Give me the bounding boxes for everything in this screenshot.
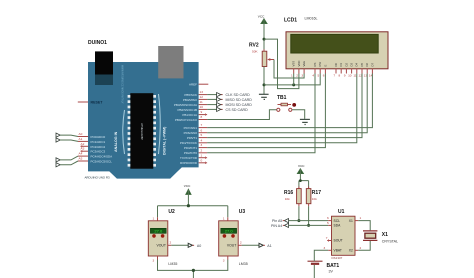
svg-text:U2: U2	[168, 209, 175, 215]
wire R16 to SCL line	[298, 206, 300, 220]
Arduino DUINO1	[85, 40, 199, 180]
ground (RV2)	[259, 94, 269, 99]
pin 1 nc	[199, 157, 208, 159]
terminal MISO SD CARD	[217, 97, 221, 101]
terminal A5 (left)	[56, 161, 78, 167]
svg-text:X2: X2	[349, 249, 353, 253]
wire right terminal to ground	[292, 110, 305, 119]
svg-text:TX: TX	[180, 156, 184, 160]
wire pin3 to E	[207, 74, 325, 148]
Arduino pin stubs right	[78, 84, 209, 164]
svg-text:PD4/T0/XCK: PD4/T0/XCK	[180, 141, 197, 145]
svg-text:11: 11	[200, 100, 203, 104]
pin 7 SOUT nc	[327, 240, 331, 242]
svg-text:7: 7	[333, 73, 335, 77]
lcd pin stubs and numbers	[291, 69, 373, 78]
svg-text:RESET: RESET	[91, 101, 104, 105]
svg-text:9: 9	[201, 110, 203, 114]
svg-text:BAT1: BAT1	[327, 263, 340, 269]
wire VBAT to battery	[314, 250, 328, 261]
svg-text:PD2/INT0: PD2/INT0	[184, 151, 198, 155]
wire VCC split to R16 R17	[299, 174, 309, 189]
wire	[60, 156, 78, 160]
svg-text:MISO SD CARD: MISO SD CARD	[226, 98, 253, 102]
wire pin13	[207, 94, 217, 96]
svg-text:1: 1	[291, 73, 293, 77]
svg-text:3: 3	[324, 246, 326, 250]
svg-text:DUINO1: DUINO1	[88, 40, 107, 46]
wire pin2 to RS	[207, 74, 315, 153]
svg-text:10: 10	[200, 105, 204, 109]
pin 3	[157, 256, 159, 260]
svg-text:RV2: RV2	[249, 43, 259, 49]
svg-text:D4: D4	[355, 62, 359, 66]
pin 6	[199, 132, 208, 134]
svg-text:PIN A4: PIN A4	[271, 224, 282, 228]
svg-text:SOUT: SOUT	[334, 239, 343, 243]
svg-text:Pin A5: Pin A5	[272, 219, 282, 223]
svg-text:PC2/ADC2: PC2/ADC2	[91, 145, 106, 149]
svg-text:3: 3	[301, 73, 303, 77]
battery BAT1	[308, 261, 340, 273]
svg-text:10: 10	[348, 73, 352, 77]
svg-text:U1: U1	[338, 209, 345, 215]
Arduino pin stubs left	[78, 132, 88, 161]
svg-text:DIGITAL (~PWM): DIGITAL (~PWM)	[163, 126, 167, 155]
pin 2	[238, 244, 242, 246]
bar	[278, 104, 292, 106]
svg-text:6: 6	[327, 216, 329, 220]
svg-text:TB1: TB1	[277, 95, 287, 101]
svg-text:PD0/RXD: PD0/RXD	[184, 161, 198, 165]
pin A3 nc	[81, 150, 89, 152]
pin 2	[168, 244, 172, 246]
lcd body	[286, 32, 388, 69]
power jack	[95, 51, 113, 74]
wire U2 out	[171, 244, 188, 246]
pin 3 VBAT	[328, 249, 331, 251]
pin 2	[199, 152, 208, 154]
pins D0-D3 nc	[336, 69, 352, 74]
svg-text:VBAT: VBAT	[334, 249, 342, 253]
pin 9 nc	[199, 114, 208, 116]
pin RESET nc	[78, 101, 88, 103]
usb connector	[158, 46, 183, 78]
wire pin11	[207, 104, 217, 106]
svg-text:3: 3	[223, 259, 225, 263]
svg-text:DS1307: DS1307	[332, 256, 343, 260]
svg-text:D1: D1	[339, 62, 343, 66]
svg-text:A0: A0	[79, 132, 83, 136]
svg-text:VOUT: VOUT	[157, 244, 166, 248]
terminal A1 (U3 out)	[259, 243, 272, 248]
svg-text:VDD: VDD	[297, 61, 301, 67]
potentiometer RV2	[249, 43, 274, 69]
svg-text:X1: X1	[382, 232, 388, 238]
svg-text:3V: 3V	[329, 270, 334, 274]
svg-text:ATMEGA328P: ATMEGA328P	[140, 123, 144, 140]
pin 1 X1	[355, 220, 358, 222]
svg-text:CRYSTAL: CRYSTAL	[382, 239, 398, 243]
wire	[60, 135, 78, 136]
svg-text:SDA: SDA	[334, 224, 342, 228]
svg-text:D2: D2	[344, 62, 348, 66]
svg-text:2: 2	[170, 241, 172, 245]
wire U1 X1 pin to crystal	[358, 221, 370, 231]
pin 5 SDA	[328, 224, 331, 226]
svg-text:D0: D0	[334, 62, 338, 66]
pin 0 nc	[199, 162, 208, 164]
svg-text:D5: D5	[360, 62, 364, 66]
node ground branch	[263, 83, 266, 86]
VCC power terminal (RV2)	[258, 14, 267, 24]
svg-text:1: 1	[360, 216, 362, 220]
svg-text:9: 9	[344, 73, 346, 77]
svg-text:27.0: 27.0	[225, 229, 234, 234]
svg-text:MOSI SD CARD: MOSI SD CARD	[226, 103, 253, 107]
crystal X1	[363, 231, 398, 243]
svg-text:CS SD CARD: CS SD CARD	[226, 108, 249, 112]
VCC power terminal (U2/U3)	[184, 184, 191, 194]
pin 1	[227, 217, 229, 221]
pin 7	[199, 127, 208, 129]
pin AREF	[199, 83, 209, 85]
wire PIN A4 to SDA	[289, 224, 329, 226]
svg-text:VCC: VCC	[298, 164, 305, 168]
svg-text:PB2/SS/OC1B: PB2/SS/OC1B	[177, 108, 197, 112]
svg-text:10k: 10k	[312, 197, 317, 201]
svg-text:8: 8	[339, 73, 341, 77]
svg-text:4: 4	[312, 73, 314, 77]
LM35 U2	[148, 209, 177, 266]
svg-text:PD1/TXD: PD1/TXD	[184, 156, 198, 160]
svg-text:7: 7	[326, 236, 328, 240]
svg-text:D3: D3	[350, 62, 354, 66]
pin 8	[199, 119, 208, 121]
pin 10	[199, 108, 208, 110]
terminal CLK SD CARD	[217, 93, 221, 97]
wire VSS down	[293, 74, 295, 85]
svg-text:SCL: SCL	[334, 219, 341, 223]
node VSS junction	[292, 83, 295, 86]
wire pin10	[207, 108, 217, 110]
wire pin12	[207, 98, 217, 100]
wire wiper to VEE	[274, 60, 304, 79]
pin 1	[157, 217, 159, 221]
svg-text:PC0/ADC0: PC0/ADC0	[91, 135, 106, 139]
svg-text:7: 7	[201, 123, 203, 127]
terminal A4 (left)	[56, 156, 78, 162]
svg-text:X1: X1	[349, 219, 353, 223]
terminal CS SD CARD	[217, 107, 221, 111]
svg-text:8: 8	[201, 115, 203, 119]
svg-text:A1: A1	[79, 137, 83, 141]
svg-text:4: 4	[201, 138, 203, 142]
svg-text:A2: A2	[81, 142, 85, 146]
pin 3	[199, 147, 208, 149]
lcd screen	[291, 34, 378, 53]
pin 13	[199, 94, 208, 96]
svg-text:2: 2	[240, 241, 242, 245]
svg-text:VEE: VEE	[302, 61, 306, 67]
left pin labels	[91, 135, 113, 164]
wire ground line to RW and VSS	[264, 74, 320, 85]
svg-text:PC3/ADC3: PC3/ADC3	[91, 150, 106, 154]
wire Pin A5 to SCL	[289, 220, 329, 222]
ground (TB1)	[300, 119, 310, 124]
actuator dot	[292, 103, 296, 107]
svg-text:PC4/ADC4/SDA: PC4/ADC4/SDA	[91, 155, 113, 159]
svg-text:1: 1	[223, 217, 225, 221]
LCD1 LM016L	[284, 17, 388, 69]
pin 11	[199, 104, 208, 106]
terminal A0 (U2 out)	[188, 243, 201, 248]
wire pin4 to D4	[207, 74, 357, 143]
svg-text:2: 2	[296, 73, 298, 77]
wire U3 out	[242, 244, 259, 246]
wire	[60, 140, 78, 141]
svg-text:AREF: AREF	[189, 83, 197, 87]
resistor R17	[306, 187, 321, 207]
wire pin5 to D5	[207, 74, 362, 138]
wire	[60, 161, 78, 165]
pin A0	[78, 136, 88, 138]
svg-text:WWW.ARDUINO.CC MADE IN ITALY: WWW.ARDUINO.CC MADE IN ITALY	[121, 65, 124, 104]
terminal PIN A4	[271, 223, 289, 228]
wire VCC branch to VDD	[264, 39, 299, 89]
bottom rail U2/U3	[158, 260, 228, 278]
svg-text:LCD1: LCD1	[284, 18, 297, 24]
svg-text:LM35: LM35	[239, 262, 248, 266]
node R17/SDA	[307, 224, 310, 227]
svg-text:PB5/SCK: PB5/SCK	[184, 93, 197, 97]
svg-text:3: 3	[153, 259, 155, 263]
svg-text:PB1/OC1A: PB1/OC1A	[182, 113, 197, 117]
svg-text:10k: 10k	[285, 197, 290, 201]
wire battery down	[313, 265, 315, 278]
svg-text:D6: D6	[365, 62, 369, 66]
pin 2 X2	[355, 249, 358, 251]
pins VSS VDD VEE	[294, 69, 304, 74]
svg-text:RS: RS	[313, 62, 317, 66]
node VCC branch	[263, 38, 266, 41]
svg-text:PB4/MISO: PB4/MISO	[183, 98, 198, 102]
wire pin6 to D6	[207, 74, 367, 133]
node rail	[187, 204, 190, 207]
svg-text:R17: R17	[312, 190, 321, 196]
push button TB1	[277, 95, 310, 125]
svg-text:12: 12	[200, 95, 204, 99]
pins RS RW E	[315, 69, 325, 74]
svg-text:A4: A4	[79, 152, 83, 156]
VCC power terminal (R16/R17)	[297, 164, 305, 173]
svg-text:A3: A3	[81, 147, 85, 151]
svg-text:6: 6	[323, 73, 325, 77]
svg-text:6: 6	[201, 128, 203, 132]
SD card terminals	[207, 93, 250, 98]
svg-text:RW: RW	[318, 62, 322, 67]
svg-text:RX: RX	[180, 161, 184, 165]
pins D4-D7	[357, 69, 373, 74]
svg-text:ARDUINO UNO R3: ARDUINO UNO R3	[85, 176, 110, 180]
wire pin8 to TB1	[207, 110, 276, 120]
svg-text:LM35: LM35	[168, 262, 177, 266]
svg-text:E: E	[323, 65, 327, 67]
svg-text:13: 13	[200, 90, 204, 94]
board DUINO1	[88, 62, 199, 179]
svg-text:LM016L: LM016L	[305, 17, 318, 21]
svg-text:A5: A5	[79, 157, 83, 161]
terminal A1 (left)	[56, 138, 78, 142]
wire pin7 to D7	[207, 74, 372, 128]
lcd vertical pin names	[292, 61, 375, 67]
right pin labels	[174, 83, 198, 166]
pin 3	[227, 256, 229, 260]
svg-text:2: 2	[360, 246, 362, 250]
svg-text:2: 2	[201, 148, 203, 152]
svg-text:3: 3	[201, 143, 203, 147]
svg-text:PD5/T1: PD5/T1	[187, 136, 198, 140]
wire VCC to RV2 top	[263, 24, 265, 51]
svg-text:VCC: VCC	[184, 184, 191, 188]
wire RV2 bottom to ground	[263, 67, 265, 95]
svg-text:PB0/ICP1/CLKO: PB0/ICP1/CLKO	[175, 118, 198, 122]
node bottom rail	[192, 269, 195, 272]
svg-text:PB3/MOSI/OC2A: PB3/MOSI/OC2A	[174, 103, 197, 107]
node R16/SCL	[297, 219, 300, 222]
terminals	[277, 108, 280, 111]
svg-text:PC1/ADC1: PC1/ADC1	[91, 140, 106, 144]
svg-text:U3: U3	[239, 209, 246, 215]
svg-text:5: 5	[327, 221, 329, 225]
svg-text:0: 0	[201, 158, 203, 162]
svg-text:27.0: 27.0	[154, 229, 163, 234]
svg-text:CLK SD CARD: CLK SD CARD	[226, 93, 251, 97]
svg-text:1: 1	[201, 153, 203, 157]
terminal MOSI SD CARD	[217, 103, 221, 107]
svg-text:PD3/INT1: PD3/INT1	[184, 146, 198, 150]
LM35 U3	[219, 209, 248, 266]
terminal A0 (left)	[56, 133, 78, 137]
wiper arrow	[270, 59, 275, 61]
svg-text:1: 1	[153, 217, 155, 221]
svg-text:VCC: VCC	[258, 14, 265, 18]
svg-text:ANALOG IN: ANALOG IN	[114, 131, 118, 152]
svg-text:A0: A0	[197, 244, 201, 248]
svg-text:5: 5	[318, 73, 320, 77]
pin A4	[78, 155, 88, 157]
ATMEGA328P chip U	[130, 93, 153, 169]
svg-text:PD7/AIN1: PD7/AIN1	[184, 126, 198, 130]
wire VCC rail U2/U3	[158, 194, 228, 217]
svg-text:VSS: VSS	[292, 61, 296, 67]
pin 12	[199, 98, 208, 100]
wire R17 to SDA line	[308, 206, 310, 225]
pin 5	[199, 137, 208, 139]
pin A1	[78, 140, 88, 142]
pin A5	[78, 160, 88, 162]
svg-text:VOUT: VOUT	[227, 244, 236, 248]
U1 DS1307	[324, 209, 362, 260]
terminal Pin A5	[272, 219, 289, 224]
svg-text:A1: A1	[267, 244, 271, 248]
svg-text:D7: D7	[370, 62, 374, 66]
svg-text:5: 5	[201, 133, 203, 137]
pin 4	[199, 142, 208, 144]
wire crystal to U1 X2 pin	[358, 241, 370, 250]
svg-text:R16: R16	[284, 190, 293, 196]
svg-text:50K: 50K	[252, 50, 258, 54]
svg-text:PD6/AIN0: PD6/AIN0	[184, 131, 198, 135]
pin A2 nc	[81, 145, 89, 147]
resistor R16	[284, 187, 301, 207]
pin 6 SCL	[328, 220, 331, 222]
svg-text:PC5/ADC5/SCL: PC5/ADC5/SCL	[91, 160, 113, 164]
